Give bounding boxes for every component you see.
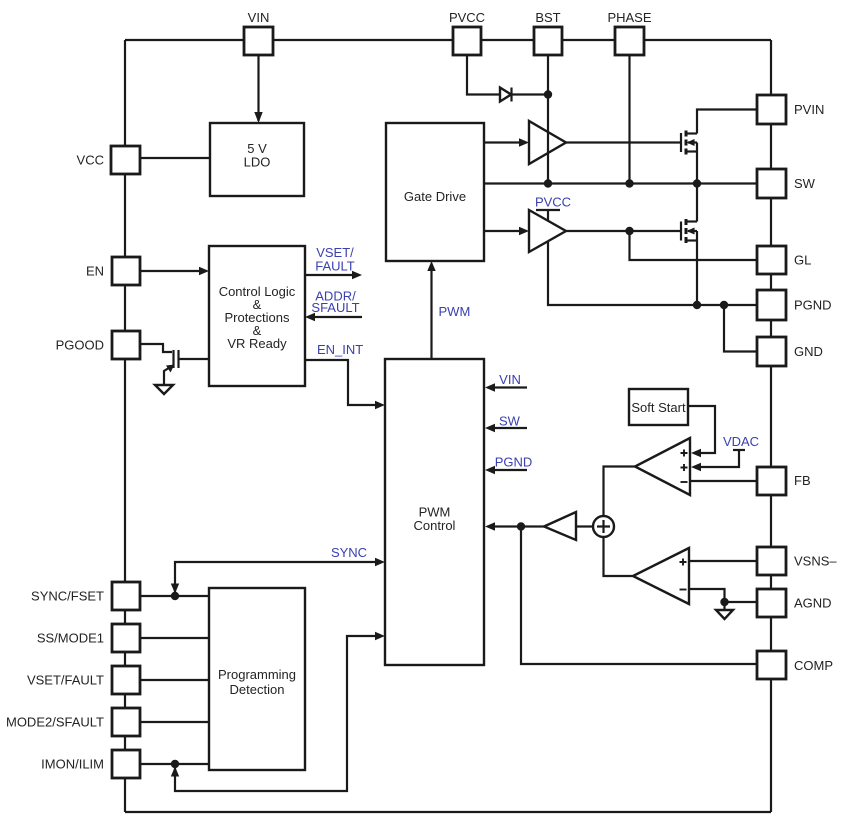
pin VIN (244, 27, 273, 55)
block PWM Control (385, 359, 484, 665)
op-amp error amp U1 (635, 438, 690, 495)
summing junction (593, 516, 614, 537)
wire ADDR/SFAULT arrow line (311, 316, 362, 318)
wire error amp out to summer (604, 467, 636, 517)
wire IMON tap (175, 636, 379, 791)
wire summer to buffer (576, 525, 593, 527)
svg-text:SW: SW (499, 414, 521, 429)
op-amp driver1 (529, 121, 566, 164)
svg-text:VIN: VIN (499, 372, 521, 387)
svg-text:VSET/FAULT: VSET/FAULT (27, 673, 104, 688)
transistor Q3 pgood open drain (164, 350, 179, 385)
svg-text:PVCC: PVCC (449, 10, 485, 25)
svg-text:GND: GND (794, 344, 823, 359)
wire VSET/FAULT arrow line (305, 274, 355, 276)
svg-text:PVIN: PVIN (794, 102, 824, 117)
arrowhead VIN to LDO (254, 112, 262, 123)
wire PVCC bar above driver2 (536, 209, 560, 211)
plus marker amp2 (680, 559, 687, 566)
wire SYNC/FSET to programming (140, 595, 209, 597)
node SYNC tap junction (171, 592, 179, 600)
pin EN (112, 257, 140, 285)
arrowhead EN to control logic (199, 267, 209, 275)
wire PGOOD to fet drain (140, 344, 172, 352)
wire agnd ground stub (723, 602, 725, 610)
op-amp error amp U2 (633, 548, 689, 604)
wire diode to BST node (512, 93, 548, 95)
wire VDAC tee bar (733, 449, 745, 451)
pin VCC (111, 146, 140, 174)
wire low fet source to PGND (696, 241, 698, 306)
wire SW into pwm control (491, 427, 527, 429)
pin COMP (757, 651, 786, 679)
svg-text:PGND: PGND (495, 455, 533, 470)
pin GND (757, 337, 786, 366)
transistor Q1 high side (681, 131, 697, 155)
arrowhead SYNC tap down (171, 584, 179, 594)
wire soft start to error amp (688, 406, 715, 453)
svg-text:SS/MODE1: SS/MODE1 (37, 631, 104, 646)
wire VIN into pwm control (491, 386, 527, 388)
plus marker amp1 in2 (681, 464, 688, 471)
wire VDAC to error amp (697, 450, 739, 467)
arrowhead SYNC to pwm (375, 558, 385, 566)
pin PVIN (757, 95, 786, 124)
op-amp driver2 (529, 210, 566, 252)
svg-text:PGOOD: PGOOD (56, 338, 104, 353)
svg-text:VCC: VCC (77, 153, 104, 168)
pin FB (757, 467, 786, 495)
arrowhead SW pwm (485, 424, 495, 432)
block Programming Detection (209, 588, 305, 770)
pin VSNS- (757, 547, 786, 575)
svg-text:IMON/ILIM: IMON/ILIM (41, 757, 104, 772)
pin PGOOD (112, 331, 140, 359)
svg-text:COMP: COMP (794, 658, 833, 673)
arrowhead buffer to pwm (485, 522, 495, 530)
pin MODE2/SFAULT (112, 708, 140, 736)
pin BST (534, 27, 562, 55)
svg-text:GL: GL (794, 253, 811, 268)
svg-text:Soft Start: Soft Start (631, 400, 686, 415)
svg-text:PGND: PGND (794, 298, 832, 313)
svg-text:VSNS–: VSNS– (794, 554, 837, 569)
svg-text:SYNC: SYNC (331, 545, 367, 560)
wire fet gate to control logic (179, 358, 209, 360)
wire PGND line (548, 242, 757, 305)
arrowhead soft start (691, 449, 701, 457)
wire VSNS to amp2 (689, 560, 757, 562)
svg-text:VR Ready: VR Ready (227, 336, 287, 351)
svg-text:Control: Control (414, 518, 456, 533)
wire PVCC tick into driver2 (547, 210, 549, 221)
svg-text:SW: SW (794, 176, 816, 191)
pin GL (757, 246, 786, 274)
wire bottom rail (125, 811, 771, 813)
node AGND junction (720, 598, 728, 606)
wire SS/MODE1 to programming (140, 637, 209, 639)
wire PWM to gate drive (430, 267, 432, 359)
arrowhead driver2 input (519, 227, 529, 235)
wire PGND into pwm control (491, 469, 527, 471)
pin IMON/ILIM (112, 750, 140, 778)
pin PGND (757, 290, 786, 320)
arrowhead VIN pwm (485, 383, 495, 391)
minus marker amp2 (680, 589, 687, 591)
svg-text:PHASE: PHASE (607, 10, 651, 25)
wire VIN to LDO (257, 55, 259, 121)
wire EN_INT (305, 360, 379, 405)
svg-text:EN_INT: EN_INT (317, 342, 363, 357)
ground pgood (155, 385, 173, 394)
wire BST leg through driver1 (547, 55, 549, 184)
wire PGND to GND (724, 305, 757, 352)
pin PHASE (615, 27, 644, 55)
svg-text:PVCC: PVCC (535, 195, 571, 210)
node GL junction (625, 227, 633, 235)
wire MODE2/SFAULT to programming (140, 721, 209, 723)
node buffer out junction (517, 522, 525, 530)
block 5V LDO (210, 123, 304, 196)
node SW-PHASE junction (625, 179, 633, 187)
pin SS/MODE1 (112, 624, 140, 652)
wire buffer out to pwm control (491, 525, 544, 527)
wire gate drive to driver2 (484, 230, 522, 232)
wire gate drive to driver1 (484, 141, 522, 143)
diode D1 (500, 88, 511, 102)
wire GL branch (630, 231, 758, 260)
svg-text:VDAC: VDAC (723, 434, 759, 449)
pin SYNC/FSET (112, 582, 140, 610)
svg-text:AGND: AGND (794, 596, 832, 611)
svg-text:FB: FB (794, 473, 811, 488)
wire high fet source to SW (696, 152, 698, 184)
wire PHASE leg (628, 55, 630, 184)
node PGND-GND junction (720, 301, 728, 309)
wire high fet drain to PVIN (697, 110, 757, 134)
svg-text:Gate Drive: Gate Drive (404, 189, 466, 204)
arrowhead PGND pwm (485, 466, 495, 474)
pin AGND (757, 589, 786, 617)
wire SYNC tap (175, 562, 379, 592)
pin VSET/FAULT (112, 666, 140, 694)
arrowhead EN_INT (375, 401, 385, 409)
arrowhead ADDR/SFAULT (305, 313, 315, 321)
node diode-BST junction (544, 90, 552, 98)
node PGND-FET junction (693, 301, 701, 309)
wire PVCC leg (467, 55, 500, 95)
transistor Q2 low side (681, 219, 697, 243)
node IMON tap junction (171, 760, 179, 768)
arrowhead driver1 input (519, 138, 529, 146)
svg-text:FAULT: FAULT (315, 259, 355, 274)
svg-text:PWM: PWM (439, 304, 471, 319)
svg-text:SYNC/FSET: SYNC/FSET (31, 589, 104, 604)
ground agnd (716, 610, 733, 619)
svg-text:LDO: LDO (244, 155, 271, 170)
arrowhead VSET/FAULT (352, 271, 362, 279)
wire low fet drain to SW (696, 184, 698, 222)
wire amp2 minus to AGND (689, 589, 757, 602)
block Gate Drive (386, 123, 484, 261)
wire VCC to LDO (140, 157, 210, 159)
block Control Logic (209, 246, 305, 386)
wire driver1 out to high fet gate (566, 141, 681, 143)
arrowhead IMON tap up (171, 767, 179, 777)
wire VSET/FAULT to programming (140, 679, 209, 681)
wire driver2 out to low fet gate (566, 230, 681, 232)
op-amp buffer (544, 512, 576, 540)
arrowhead PWM up (427, 261, 435, 271)
arrowhead VDAC (691, 463, 701, 471)
arrowhead IMON to pwm (375, 632, 385, 640)
wire SW line (484, 182, 757, 184)
wire left rail (124, 40, 126, 812)
wire top bus (125, 39, 771, 41)
svg-text:SFAULT: SFAULT (311, 300, 359, 315)
svg-text:Programming: Programming (218, 667, 296, 682)
node SW-FET junction (693, 179, 701, 187)
svg-text:BST: BST (535, 10, 560, 25)
node SW-BST junction (544, 179, 552, 187)
pin PVCC (453, 27, 481, 55)
block Soft Start (629, 389, 688, 425)
wire comp net (521, 527, 757, 665)
minus marker amp1 in3 (681, 481, 688, 483)
svg-text:VIN: VIN (248, 10, 270, 25)
plus marker amp1 in1 (681, 450, 688, 457)
svg-text:Detection: Detection (230, 682, 285, 697)
pin SW (757, 169, 786, 198)
wire right rail (770, 40, 772, 812)
svg-text:EN: EN (86, 264, 104, 279)
wire IMON/ILIM to programming (140, 763, 209, 765)
svg-text:MODE2/SFAULT: MODE2/SFAULT (6, 715, 104, 730)
wire EN to control logic (140, 270, 203, 272)
wire amp2 out to summer (604, 537, 634, 576)
wire FB to error amp (690, 480, 757, 482)
